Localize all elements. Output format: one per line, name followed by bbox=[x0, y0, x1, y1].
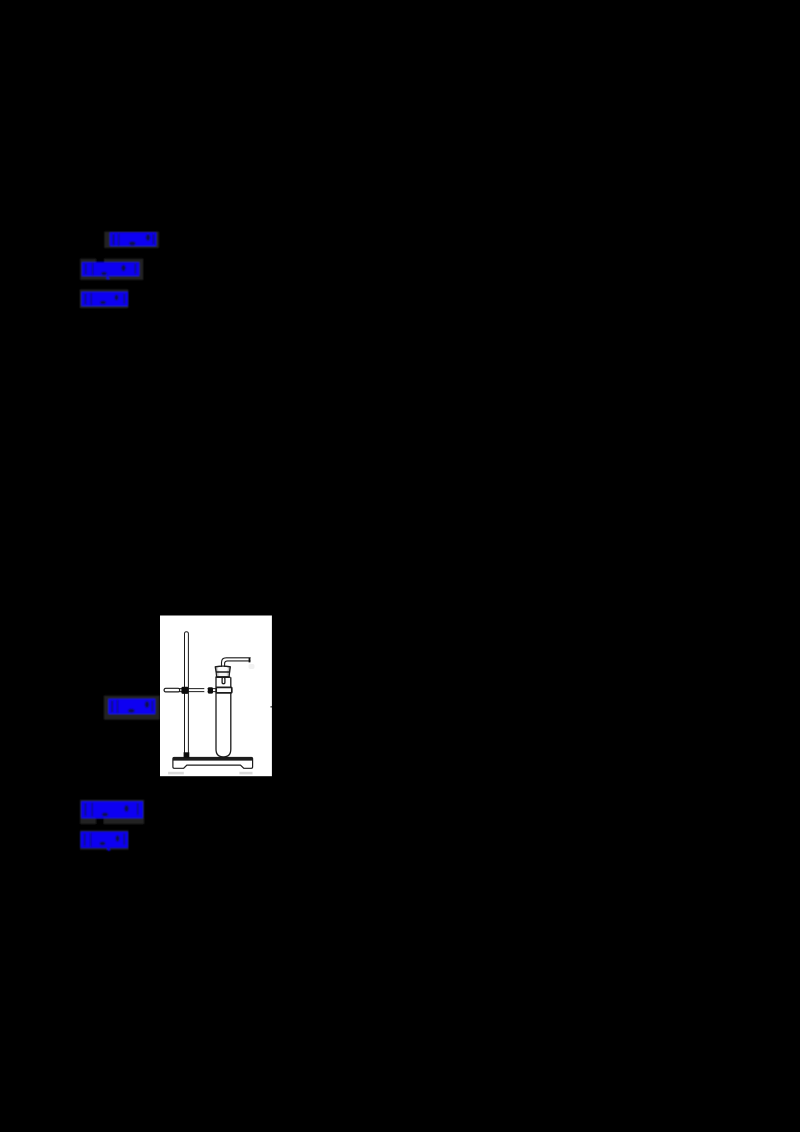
clamp jaw around tube bbox=[216, 687, 232, 693]
stand base plate bbox=[173, 758, 253, 769]
blue marker text 6 bbox=[81, 832, 128, 851]
base shadow left bbox=[168, 772, 184, 775]
highlight halo 4 (marker left of figure) bbox=[104, 696, 160, 720]
stopper lower band bbox=[216, 672, 230, 677]
stand base top band bbox=[173, 757, 253, 760]
delivery tube bend bbox=[222, 658, 251, 667]
clamp boss on pole bbox=[181, 687, 188, 694]
stopper cap shading bbox=[218, 667, 228, 671]
highlight halo 5 bbox=[80, 800, 144, 827]
rod gap before knob bbox=[204, 688, 207, 693]
clamp rod bbox=[165, 689, 216, 692]
clamp rod left capsule bbox=[164, 688, 180, 692]
highlight halo 2 (answer marker line 2) bbox=[80, 258, 143, 280]
stopper band bottom line bbox=[216, 676, 229, 678]
pole foot joint bbox=[184, 752, 190, 758]
apparatus figure (white panel) bbox=[160, 616, 272, 777]
inner glass stub bbox=[222, 677, 225, 683]
blue marker text 2 bbox=[82, 262, 139, 279]
highlight halo 3 (answer marker line 3) bbox=[80, 290, 129, 309]
blue marker text 5 bbox=[81, 801, 143, 818]
stray mark at right edge bbox=[271, 706, 272, 708]
highlight halo 1 (answer marker line 1) bbox=[104, 232, 158, 248]
blue marker text 4 bbox=[109, 699, 156, 714]
base shadow right bbox=[239, 772, 252, 775]
faint smudge under tube end bbox=[249, 664, 255, 669]
delivery tube end cap bbox=[249, 658, 251, 663]
blue marker text 1 bbox=[110, 232, 156, 246]
highlight halo 6 bbox=[80, 830, 129, 850]
clamp screw knob bbox=[208, 687, 213, 693]
blue marker text 3 bbox=[82, 292, 129, 306]
stand pole bbox=[185, 632, 189, 758]
stopper cap bbox=[215, 666, 230, 672]
test tube body bbox=[216, 678, 231, 757]
